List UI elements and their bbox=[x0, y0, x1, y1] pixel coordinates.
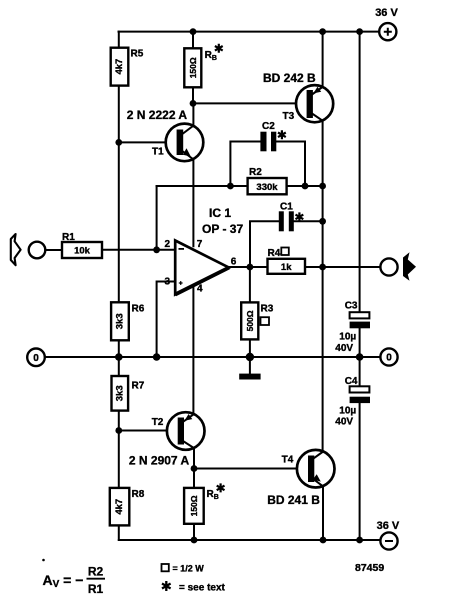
svg-text:AV = −: AV = − bbox=[43, 572, 84, 590]
resistor R1 10k bbox=[62, 232, 102, 258]
wire 150R bottom resistor to bottom rail bbox=[193, 524, 195, 540]
svg-text:10µ: 10µ bbox=[339, 331, 356, 342]
wire 150R bottom to node bbox=[192, 87, 194, 103]
asterisk C1 bbox=[296, 212, 304, 221]
svg-text:R5: R5 bbox=[131, 49, 144, 60]
wire R2 right to output rail bbox=[287, 185, 323, 187]
wire 0V rail bbox=[45, 356, 381, 358]
transistor T2 2N2907A bbox=[129, 412, 205, 467]
wire R3 bottom lead to 0 rail bbox=[249, 339, 251, 357]
svg-text:T2: T2 bbox=[152, 417, 164, 428]
node T2 base / left rail bbox=[115, 427, 122, 434]
capacitor C1 bbox=[279, 202, 294, 232]
wire feedback horizontal to R2 left bbox=[157, 185, 248, 187]
svg-text:6: 6 bbox=[231, 257, 237, 268]
svg-text:87459: 87459 bbox=[355, 562, 384, 574]
wire T1 collector up bbox=[192, 103, 194, 125]
terminal +36V bbox=[375, 7, 398, 40]
svg-text:3: 3 bbox=[165, 277, 171, 288]
wire R3 top lead bbox=[249, 267, 251, 302]
wire T2 base from left rail bbox=[119, 430, 178, 432]
svg-text:3k3: 3k3 bbox=[115, 313, 126, 329]
node C1 right / output rail bbox=[319, 218, 326, 225]
ground bbox=[239, 374, 260, 380]
legend half-watt note bbox=[162, 564, 205, 574]
svg-text:= see text: = see text bbox=[179, 583, 226, 594]
wire bottom supply rail bbox=[119, 539, 381, 541]
svg-text:4: 4 bbox=[197, 284, 203, 295]
node T2 collector / T4 base bbox=[191, 465, 198, 472]
asterisk C2 bbox=[278, 130, 286, 139]
resistor R6 bbox=[111, 302, 145, 340]
wire node to T3 base bbox=[193, 102, 307, 104]
wire T2 collector node to T4 base bbox=[194, 468, 307, 470]
resistor RB* top 150 ohm bbox=[184, 48, 217, 87]
svg-text:40V: 40V bbox=[335, 417, 353, 428]
capacitor C3 electrolytic bbox=[335, 301, 370, 355]
node output wire / output rail bbox=[319, 264, 326, 271]
svg-text:2 N 2907 A: 2 N 2907 A bbox=[129, 454, 190, 468]
terminal 0V left bbox=[27, 349, 45, 367]
resistor R4 1k bbox=[268, 248, 306, 274]
svg-text:R8: R8 bbox=[132, 489, 145, 500]
svg-text:BD 242 B: BD 242 B bbox=[263, 71, 316, 85]
svg-text:C4: C4 bbox=[345, 376, 358, 387]
svg-text:36 V: 36 V bbox=[377, 520, 400, 532]
input terminal bbox=[29, 242, 46, 259]
svg-text:R7: R7 bbox=[132, 381, 145, 392]
svg-text:OP - 37: OP - 37 bbox=[202, 222, 243, 236]
wire T1 emitter to op-amp pin7 bbox=[192, 159, 194, 246]
node bottom rail / T4 emitter bbox=[320, 537, 327, 544]
wire ground stem bbox=[249, 357, 251, 374]
node bottom rail / 150R bbox=[191, 537, 198, 544]
resistor R2 330k bbox=[248, 167, 287, 194]
resistor R8 bbox=[110, 488, 145, 526]
svg-text:2: 2 bbox=[165, 239, 171, 250]
svg-text:T1: T1 bbox=[152, 147, 164, 158]
wire left bias rail R6 to 0 rail bbox=[118, 340, 120, 357]
svg-text:330k: 330k bbox=[256, 182, 278, 193]
resistor R7 bbox=[112, 376, 145, 411]
svg-text:T4: T4 bbox=[282, 455, 294, 466]
svg-text:3k3: 3k3 bbox=[114, 385, 125, 401]
node T1 collector / 150R / T3 base bbox=[190, 100, 197, 107]
terminal 0V right bbox=[380, 348, 397, 365]
wire C4 to bottom rail bbox=[359, 403, 361, 540]
wire 0 rail to C4 bbox=[359, 357, 361, 386]
svg-text:0: 0 bbox=[33, 353, 39, 364]
svg-text:150Ω: 150Ω bbox=[189, 495, 199, 516]
wire C3 rail top section bbox=[359, 32, 361, 313]
svg-text:10k: 10k bbox=[74, 246, 91, 257]
svg-text:IC 1: IC 1 bbox=[209, 206, 231, 220]
output terminal bbox=[380, 258, 397, 275]
wire T2 collector down bbox=[193, 448, 195, 488]
svg-text:R1: R1 bbox=[62, 232, 75, 243]
gain formula Av = -R2/R1 bbox=[42, 559, 105, 596]
svg-text:4k7: 4k7 bbox=[114, 499, 125, 515]
svg-text:36 V: 36 V bbox=[375, 7, 398, 19]
resistor RB* bottom 150 ohm bbox=[184, 488, 219, 524]
wire 150R top to rail bbox=[192, 32, 194, 49]
capacitor C4 electrolytic bbox=[335, 376, 370, 428]
wire op-amp pin4 down bbox=[192, 285, 194, 414]
svg-text:R1: R1 bbox=[88, 582, 104, 596]
svg-text:10µ: 10µ bbox=[339, 406, 356, 417]
svg-text:1k: 1k bbox=[281, 262, 292, 273]
legend asterisk note bbox=[162, 581, 226, 594]
wire left bias rail R8 to bottom rail bbox=[118, 525, 120, 540]
node pin6 / C1 left / R3 bbox=[247, 264, 254, 271]
wire top supply rail bbox=[119, 31, 380, 33]
node top rail / C3 rail bbox=[356, 28, 363, 35]
svg-text:2 N 2222 A: 2 N 2222 A bbox=[127, 108, 188, 122]
asterisk RB top bbox=[215, 44, 223, 53]
wire output rail T3 collector to T4 collector bbox=[322, 121, 324, 452]
svg-text:BD 241 B: BD 241 B bbox=[267, 493, 320, 507]
svg-text:R2: R2 bbox=[249, 167, 262, 178]
resistor R3 500 ohm bbox=[241, 302, 274, 339]
wire input terminal to R1 bbox=[45, 249, 62, 251]
wire left bias rail upper (top rail to R5) bbox=[118, 32, 120, 48]
svg-text:R6: R6 bbox=[132, 304, 145, 315]
node feedback / output rail bbox=[319, 183, 326, 190]
node R2 left / C2 / feedback bbox=[227, 183, 234, 190]
svg-text:C3: C3 bbox=[345, 301, 358, 312]
wire T4 emitter to bottom rail bbox=[322, 486, 324, 540]
wire C1 left bracket bbox=[250, 221, 279, 267]
drawing number 87459 bbox=[355, 562, 384, 574]
svg-text:C1: C1 bbox=[280, 202, 293, 213]
wire feedback vertical to pin2 node bbox=[156, 186, 158, 250]
output arrow symbol bbox=[403, 252, 416, 280]
wire C2 right bracket bbox=[276, 142, 305, 187]
transistor T1 2N2222A bbox=[127, 108, 203, 161]
node bottom rail / C4 rail bbox=[356, 537, 363, 544]
input arrow symbol bbox=[11, 234, 21, 265]
wire T1 base from left rail bbox=[119, 141, 177, 143]
svg-text:40V: 40V bbox=[335, 343, 353, 354]
node 0 rail / pin3 bbox=[153, 353, 161, 361]
wire left bias rail R5 to R6 bbox=[118, 86, 120, 303]
svg-text:T3: T3 bbox=[283, 111, 295, 122]
node 0 rail / R3 ground bbox=[246, 353, 254, 361]
capacitor C2 bbox=[260, 121, 276, 151]
svg-text:= 1/2 W: = 1/2 W bbox=[173, 564, 205, 574]
wire op-amp output pin6 to output terminal bbox=[229, 266, 380, 268]
wire left bias rail 0 rail to R7 bbox=[118, 357, 120, 376]
svg-text:0: 0 bbox=[386, 353, 392, 364]
node R2 right / C2 right bbox=[302, 183, 309, 190]
wire op-amp pin3 to 0 rail bbox=[157, 282, 176, 358]
node pin2 input bbox=[153, 246, 160, 253]
node top rail / 150R bbox=[190, 28, 197, 35]
asterisk RB bottom bbox=[217, 483, 225, 492]
wire C3 to 0 rail bbox=[359, 328, 361, 357]
op-amp U1 OP-37 bbox=[165, 206, 244, 295]
transistor T4 BD241B bbox=[267, 450, 334, 507]
wire C2 left bracket bbox=[230, 142, 260, 187]
node 0 rail / C3 C4 bbox=[356, 353, 364, 361]
svg-text:4k7: 4k7 bbox=[114, 59, 125, 75]
node T1 base / left rail bbox=[115, 139, 122, 146]
svg-text:R3: R3 bbox=[261, 304, 274, 315]
terminal -36V bbox=[377, 520, 400, 550]
svg-text:150Ω: 150Ω bbox=[188, 57, 198, 78]
svg-text:7: 7 bbox=[197, 239, 203, 250]
wire R1 to op-amp pin 2 bbox=[102, 249, 175, 251]
wire T3 emitter to top rail bbox=[322, 32, 324, 87]
transistor T3 BD242B bbox=[263, 71, 333, 122]
resistor R5 bbox=[111, 48, 144, 86]
svg-text:C2: C2 bbox=[262, 121, 275, 132]
wire C1 right bracket bbox=[294, 220, 323, 222]
svg-text:R4: R4 bbox=[268, 248, 281, 259]
svg-text:R2: R2 bbox=[88, 565, 104, 579]
node 0 rail / left rail bbox=[115, 353, 123, 361]
wire left bias rail R7 to R8 bbox=[118, 411, 120, 488]
node top rail / T3 emitter bbox=[319, 28, 326, 35]
svg-text:500Ω: 500Ω bbox=[245, 310, 255, 331]
